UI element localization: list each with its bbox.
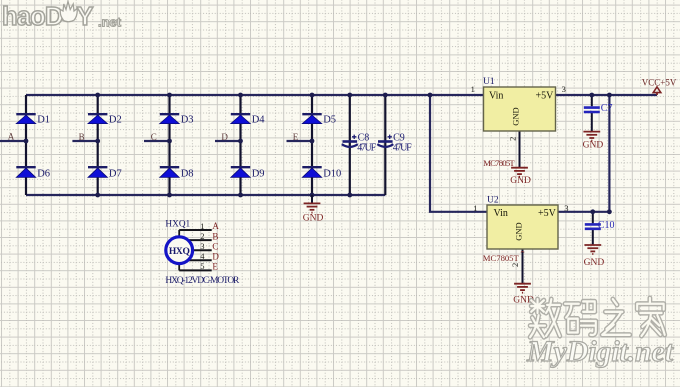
svg-text:E: E xyxy=(293,132,299,142)
svg-text:Vin: Vin xyxy=(494,208,508,219)
svg-text:MC7805T: MC7805T xyxy=(483,158,515,168)
diode D4 xyxy=(231,114,265,125)
diode D1 xyxy=(16,114,50,125)
wire C7 stubs xyxy=(591,95,593,131)
wire U2 pin2 to ground xyxy=(522,249,524,284)
svg-text:E: E xyxy=(212,262,218,272)
svg-text:1: 1 xyxy=(473,203,477,213)
svg-text:HXQ1: HXQ1 xyxy=(165,220,190,230)
node labels A-E at connector xyxy=(212,221,219,271)
svg-text:A: A xyxy=(8,132,15,142)
svg-text:C: C xyxy=(212,241,218,251)
wire node C stub xyxy=(144,140,170,142)
char jia xyxy=(637,298,665,336)
wire column 5 (D5/D10) xyxy=(311,95,313,195)
svg-text:2: 2 xyxy=(507,137,517,141)
svg-text:D8: D8 xyxy=(181,168,194,179)
svg-text:D3: D3 xyxy=(181,115,194,126)
wire column 3 (D3/D8) xyxy=(168,95,170,195)
capacitor C8 47UF xyxy=(342,133,377,154)
wire node A stub xyxy=(0,140,26,142)
diode D8 xyxy=(160,167,194,179)
svg-text:Y: Y xyxy=(77,3,94,31)
wire U1 output to VCC xyxy=(556,94,658,96)
op-amp U2 MC7805T regulator xyxy=(487,196,558,249)
diode D10 xyxy=(302,167,341,179)
svg-text:3: 3 xyxy=(200,241,204,251)
char zhi xyxy=(602,299,630,335)
svg-text:HXQ: HXQ xyxy=(169,247,190,257)
motor circle symbol xyxy=(166,237,193,264)
wire top bus rail xyxy=(26,94,484,96)
svg-text:47UF: 47UF xyxy=(357,142,376,153)
diode D3 xyxy=(160,114,194,125)
wire column 4 (D4/D9) xyxy=(239,95,241,195)
diode D2 xyxy=(88,114,122,125)
ground symbol U2 pin2 xyxy=(514,284,531,293)
svg-text:1: 1 xyxy=(200,221,204,231)
svg-text:D9: D9 xyxy=(252,168,265,179)
op-amp U1 MC7805T regulator xyxy=(483,77,556,131)
svg-text:4: 4 xyxy=(200,251,205,261)
wire U1 pin2 to ground xyxy=(519,131,521,168)
svg-text:U2: U2 xyxy=(487,196,499,206)
pin 2 stub xyxy=(179,239,212,241)
svg-text:C: C xyxy=(151,132,157,142)
svg-text:A: A xyxy=(212,221,219,231)
svg-text:2: 2 xyxy=(200,231,204,241)
capacitor C10 xyxy=(585,220,615,231)
svg-text:GND: GND xyxy=(303,214,324,224)
svg-text:C7: C7 xyxy=(601,103,613,114)
ground symbol below C7 xyxy=(583,132,600,141)
connector bracket wire xyxy=(178,230,180,270)
pin 1 stub xyxy=(179,229,212,231)
svg-text:C10: C10 xyxy=(598,220,615,231)
svg-text:D7: D7 xyxy=(109,168,122,179)
svg-text:D6: D6 xyxy=(37,168,50,179)
svg-text:D5: D5 xyxy=(323,115,336,126)
diode D6 xyxy=(16,167,50,179)
svg-text:3: 3 xyxy=(562,84,566,94)
junction dots node row xyxy=(24,139,315,144)
svg-text:B: B xyxy=(212,231,218,241)
svg-text:GND: GND xyxy=(510,176,531,186)
svg-text:D2: D2 xyxy=(109,115,122,126)
svg-text:5: 5 xyxy=(200,261,204,271)
wire bottom bus rail xyxy=(26,194,385,196)
svg-text:MC7805T: MC7805T xyxy=(483,253,520,263)
svg-text:+5V: +5V xyxy=(538,208,557,219)
char shu xyxy=(530,299,560,337)
connector HXQ1 motor xyxy=(165,220,240,287)
capacitor C7 xyxy=(584,103,613,114)
ground symbol U1 pin2 xyxy=(511,168,528,177)
junction dots U2 output xyxy=(590,209,611,214)
svg-text:1: 1 xyxy=(471,84,475,94)
svg-text:haoD: haoD xyxy=(2,3,63,31)
svg-text:Vin: Vin xyxy=(489,91,503,102)
svg-text:.net: .net xyxy=(98,15,122,30)
diode D7 xyxy=(88,167,122,179)
svg-text:D10: D10 xyxy=(323,168,341,179)
svg-text:+5V: +5V xyxy=(536,91,555,102)
watermark logo haoDIY.net top-left xyxy=(2,2,122,32)
svg-text:GND: GND xyxy=(511,107,521,125)
junction dots bottom rail xyxy=(95,193,352,198)
wire C10 stubs xyxy=(592,212,594,245)
pin 3 stub xyxy=(179,249,212,251)
svg-text:D1: D1 xyxy=(37,115,50,126)
power port VCC+5V xyxy=(642,77,677,95)
wire C9 branch xyxy=(384,95,386,195)
junction dots top rail xyxy=(95,93,612,98)
svg-text:2: 2 xyxy=(510,263,520,267)
pin 4 stub xyxy=(179,259,212,261)
svg-text:GND: GND xyxy=(583,141,604,151)
svg-text:GND: GND xyxy=(514,222,524,240)
diode D5 xyxy=(302,114,336,125)
svg-text:3: 3 xyxy=(564,203,568,213)
wire node D stub xyxy=(215,140,241,142)
svg-text:GND: GND xyxy=(584,258,605,268)
wire node B stub xyxy=(72,140,97,142)
capacitor C9 47UF xyxy=(377,133,412,154)
pin numbers 1-5 xyxy=(200,221,205,271)
wire column 2 (D2/D7) xyxy=(97,95,99,195)
ground symbol below bridge (bottom rail) xyxy=(304,195,321,213)
wire drop to U2 input xyxy=(430,95,487,212)
svg-text:D: D xyxy=(221,132,228,142)
svg-text:D4: D4 xyxy=(252,115,266,126)
wire C8 branch xyxy=(349,95,351,195)
watermark 数码之家 bottom-right xyxy=(530,298,665,337)
wire U2 output xyxy=(558,211,609,213)
diode D9 xyxy=(231,167,265,179)
svg-text:47UF: 47UF xyxy=(393,142,412,153)
wire node E stub xyxy=(287,140,313,142)
svg-text:MyDigit.net: MyDigit.net xyxy=(526,335,675,368)
wire column 1 (D1/D6) xyxy=(25,95,27,195)
pin 5 stub xyxy=(179,269,212,271)
ground symbol below C10 xyxy=(584,245,601,254)
char ma xyxy=(565,301,596,335)
svg-text:D: D xyxy=(212,252,219,262)
wire output drop to U2 output xyxy=(608,95,610,212)
svg-text:HXQ-12VDC-MOTOR: HXQ-12VDC-MOTOR xyxy=(165,276,240,286)
svg-text:U1: U1 xyxy=(483,77,495,87)
svg-text:B: B xyxy=(79,132,85,142)
svg-text:VCC+5V: VCC+5V xyxy=(642,77,677,87)
